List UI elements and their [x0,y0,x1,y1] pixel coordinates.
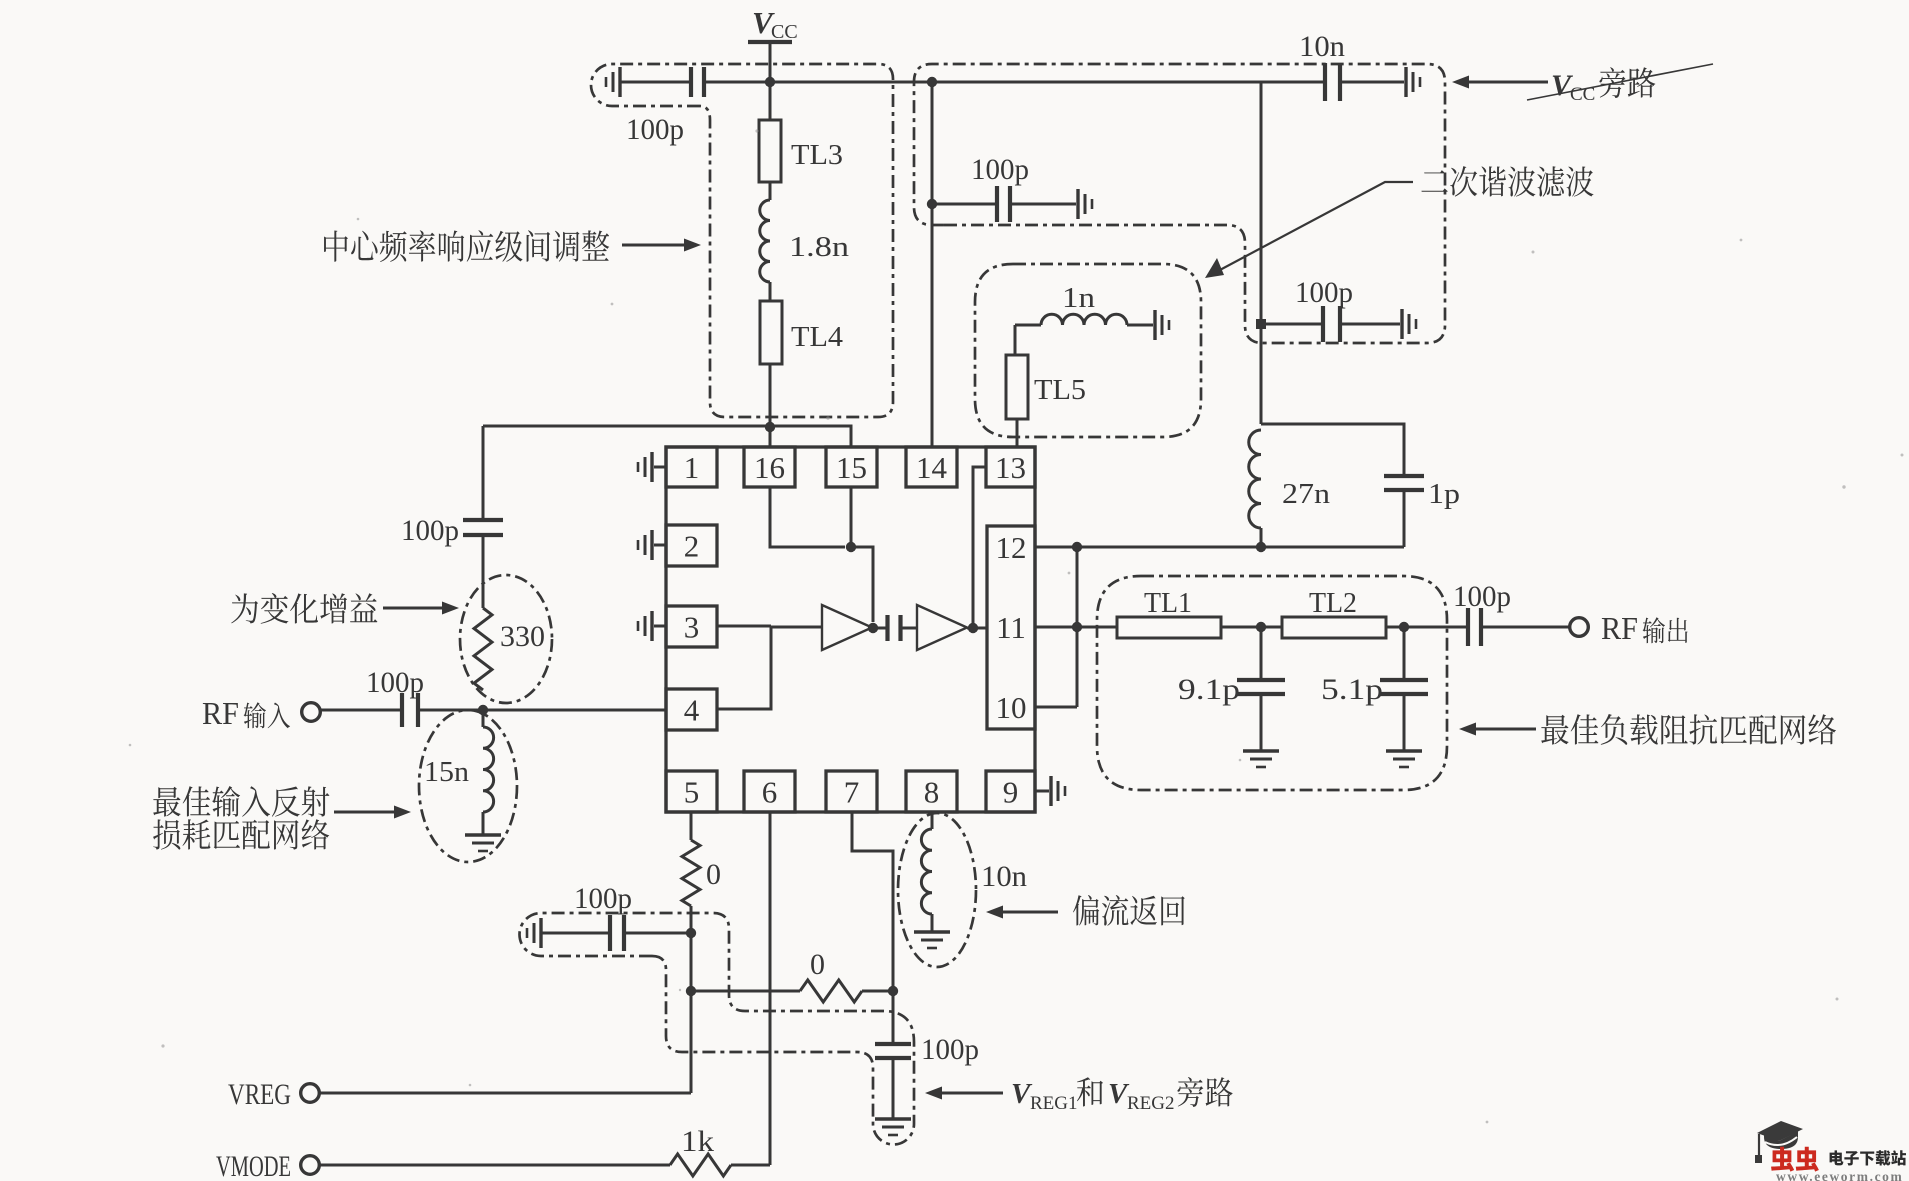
wire 100p to node [419,709,483,712]
pin 5 [666,771,717,812]
svg-text:14: 14 [916,450,948,485]
watermark 虫虫 [1771,1147,1819,1172]
arrow to region 1 [622,244,686,247]
wire to amp1 input [771,626,822,629]
svg-text:12: 12 [996,530,1027,565]
wire pins 12-11-10 tie [1076,547,1079,707]
wire 100p to 330 [482,535,485,608]
svg-text:www.eeworm.com: www.eeworm.com [1776,1169,1903,1181]
ground (top-left, VCC rail bypass) [618,67,621,97]
op-amp A1 [822,605,872,650]
svg-text:REG2: REG2 [1127,1093,1175,1114]
resistor 1k [320,1164,670,1167]
wire junction right then down to pin 15 [770,426,851,447]
wire junction to amp1 output [851,547,873,622]
svg-text:RF: RF [202,695,239,731]
pin 6 [744,771,795,812]
wire pin5 down [690,812,693,840]
transmission line TL1 [1117,617,1221,638]
pin 7 [826,771,877,812]
dash-dot region: center-frequency interstage adjust [591,64,893,417]
wire amp2 to pin 11 [967,627,987,630]
power VCC symbol [748,40,792,44]
svg-text:9: 9 [1003,775,1019,810]
capacitor 100p (pin-14 bypass) [927,199,937,209]
svg-text:4: 4 [684,693,700,728]
capacitor 100p (VREG bypass 1) [542,932,609,935]
svg-text:TL4: TL4 [791,321,844,353]
svg-text:15: 15 [836,450,867,485]
inductor 1n [1015,324,1041,327]
capacitor 1p [1384,474,1424,478]
wire pin-14 drop [931,82,934,447]
inductor 15n [482,710,485,727]
transmission line TL2 [1282,617,1386,638]
capacitor 100p (gain branch) [463,518,503,522]
pin 4 [666,689,717,730]
pin 9 [986,771,1035,812]
resistor 0 (pin5) [682,840,700,906]
arrow to 330 region [383,607,443,610]
ground (pin 2) [654,544,666,547]
resistor 0 (jumper) [691,990,800,993]
watermark 电子下载站 [1830,1150,1906,1165]
node: amp2 output [968,623,978,633]
node: pin-14 branch junction [927,77,937,87]
transmission line TL4 [760,301,782,364]
wire 1.8n-TL4 [769,282,772,301]
pin 13 [986,447,1035,487]
ground (15n) [465,833,501,836]
label 最佳负载阻抗匹配网络 [1541,714,1836,745]
wire pin11 to TL1 [1035,626,1117,629]
svg-text:1p: 1p [1428,478,1460,510]
wire pin10 out [1035,706,1077,709]
pin 1 [666,447,717,487]
terminal RF input [302,703,321,722]
node: amp1 output [868,623,878,633]
dash-dot region: input match (15n) [419,710,517,862]
svg-text:100p: 100p [626,113,684,146]
ground (5.1p) [1386,749,1422,752]
inductor 1.8n [760,200,770,282]
ground (1n) [1153,310,1156,340]
capacitor 5.1p [1403,627,1406,679]
wire junction left to 330 branch [483,425,770,428]
label 损耗匹配网络 [153,819,329,849]
ground (10n bias) [914,930,950,933]
node: VREG/100p junction [686,928,696,938]
ground (pin 1) [654,466,666,469]
inductor 27n [1249,430,1261,528]
svg-text:5: 5 [684,775,700,810]
node: pin15/16 internal junction [846,542,856,552]
dash-dot region: second-harmonic filter [975,264,1201,437]
wire pin4 internal [717,626,771,709]
dash-dot region: VREG1/VREG2 bypass [520,913,915,1145]
svg-text:7: 7 [844,775,860,810]
svg-text:100p: 100p [401,514,459,547]
svg-text:TL2: TL2 [1309,587,1357,619]
svg-text:100p: 100p [1295,276,1353,309]
wire TL2 out [1386,626,1467,629]
ground (pin 3) [654,625,666,628]
node: 100p tap [1256,319,1266,329]
ground (9.1p) [1243,749,1279,752]
node: TL1/TL2 junction [1256,622,1266,632]
svg-text:REG1: REG1 [1030,1093,1078,1114]
wire 1n to TL5 [1014,325,1017,355]
pin 16 [744,447,795,487]
wire TL4 down to pin 16 [769,364,772,447]
svg-text:5.1p: 5.1p [1321,673,1383,706]
svg-text:CC: CC [771,21,798,43]
svg-text:8: 8 [924,775,940,810]
node: pin7/bypass junction [888,986,898,996]
svg-text:3: 3 [684,610,700,645]
wire VCC rail [705,81,1325,84]
svg-text:100p: 100p [1453,580,1511,613]
dash-dot region: bias return [898,813,976,967]
node: 0-ohm junction [686,986,696,996]
transmission line TL3 [759,120,781,182]
node: VCC tap junction [765,77,775,87]
terminal RF output [1570,618,1589,637]
svg-text:TL1: TL1 [1144,587,1192,619]
capacitor 100p (top-left VCC bypass) [689,67,693,97]
arrow to bias return [986,906,1003,919]
svg-text:6: 6 [762,775,778,810]
arrow to load match [1459,723,1476,736]
wire VREG line [320,1092,691,1095]
pointer line 二次谐波滤波 [1218,182,1413,271]
wire pin3 internal [717,625,771,628]
dash-dot region: gain set (330) [460,575,552,703]
node: tank bottom junction [1256,542,1266,552]
ground (pin-14 bypass cap) [1076,189,1079,219]
svg-text:2: 2 [684,529,700,564]
pin 15 [826,447,877,487]
wire pin8 down [931,812,934,829]
ground (VREG bypass 1) [539,918,542,948]
resistor 330 [474,608,492,690]
svg-text:27n: 27n [1282,478,1331,510]
wire VCC rail down to filter [1260,82,1263,424]
svg-text:10n: 10n [1299,30,1345,63]
op-amp A2 [917,605,967,650]
ground (pin 9) [1035,790,1049,793]
svg-text:9.1p: 9.1p [1178,673,1240,706]
coupling capacitor (internal) [874,627,886,630]
dash-dot region: load impedance match [1097,576,1447,790]
watermark graduation cap [1757,1121,1803,1141]
wire amp2 node up to pin 13 [973,467,986,628]
label 二次谐波滤波 [1421,166,1593,197]
wire pin15 internal [850,487,853,547]
svg-text:TL5: TL5 [1034,374,1086,406]
svg-text:100p: 100p [971,153,1029,186]
wire TL5 to pin 13 [1016,419,1019,447]
node: RF input node [478,705,488,715]
svg-text:TL3: TL3 [791,139,843,171]
svg-text:13: 13 [995,450,1026,485]
wire node to pin 4 [483,709,666,712]
wire pin5 branch [690,906,693,1093]
wire pin16 internal [770,487,845,547]
wire 330 branch top [482,426,485,519]
capacitor 100p (27n branch bypass) [1262,323,1322,326]
svg-text:100p: 100p [366,666,424,699]
svg-text:VMODE: VMODE [216,1150,291,1181]
wire TL3-1.8n [769,182,772,200]
wire VCC to TL3 [769,82,772,120]
svg-text:11: 11 [996,610,1026,645]
svg-text:10n: 10n [981,860,1027,893]
wire pin6 down [769,812,772,1165]
terminal VREG [301,1084,320,1103]
svg-text:16: 16 [754,450,785,485]
node: TL2 output junction [1399,622,1409,632]
label 偏流返回 [1073,895,1185,926]
label 为变化增益 [231,593,377,624]
wire RF input [321,709,402,712]
wire TL1-TL2 [1221,626,1282,629]
pin 3 [666,606,717,647]
pin 2 [666,525,717,566]
ground (VREG bypass 2) [875,1117,911,1120]
svg-text:0: 0 [706,858,721,891]
svg-text:1.8n: 1.8n [789,231,850,263]
capacitor 100p (RF input) [400,693,404,727]
svg-text:RF: RF [1601,610,1638,646]
label 中心频率响应级间调整 [324,230,609,262]
label 最佳输入反射 [153,786,329,817]
wire top of 27n/1p tank [1261,424,1404,476]
svg-text:1: 1 [684,450,700,485]
svg-text:0: 0 [810,948,825,981]
svg-text:100p: 100p [921,1033,979,1066]
svg-text:1k: 1k [681,1125,714,1158]
svg-text:VREG: VREG [228,1078,291,1111]
wire pin7 down [852,812,893,991]
ground (27n branch bypass cap) [1400,309,1403,339]
pins 12/11/10 block [987,526,1035,729]
node: TL4 bottom junction [765,422,775,432]
pin 14 [906,447,957,487]
node: pin-12 junction [1072,542,1082,552]
node: pin11 junction [1072,622,1082,632]
arrow to input match [334,811,395,814]
wire pin12 out [1035,546,1077,549]
svg-text:15n: 15n [424,756,470,788]
svg-text:100p: 100p [574,882,632,915]
pin 8 [906,771,957,812]
wire tank bottom [1035,546,1404,549]
op-amp IC body [666,447,1035,812]
arrow to VCC bypass [1452,76,1469,89]
capacitor 100p (VREG bypass 2) [892,991,895,1043]
capacitor 10n (VCC rail series) [1323,63,1327,101]
svg-text:330: 330 [500,620,545,653]
transmission line TL5 [1006,355,1028,419]
arrow to VREG bypass [925,1087,942,1100]
svg-text:1n: 1n [1062,282,1096,314]
capacitor 100p (RF output) [1466,608,1470,646]
capacitor 9.1p [1260,627,1263,679]
inductor 10n (bias) [921,829,932,914]
ground (right of 10n) [1404,67,1407,97]
svg-text:10: 10 [996,690,1027,725]
terminal VMODE [301,1156,320,1175]
dash-dot region: VCC bypass [914,64,1445,343]
